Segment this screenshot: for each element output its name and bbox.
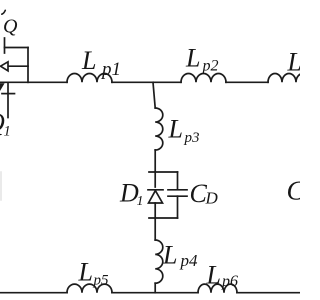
wire top rail left segment — [0, 81, 67, 83]
wire diode D1 bottom lead — [154, 203, 156, 218]
svg-text:p6: p6 — [221, 273, 238, 290]
svg-text:p5: p5 — [93, 273, 110, 289]
svg-text:p4: p4 — [180, 251, 199, 270]
label CQ (cut at top-left corner) — [2, 10, 6, 14]
svg-text:p1: p1 — [100, 59, 121, 80]
wire bottom rail right segment — [237, 292, 300, 294]
diode of Q1 (triangle, cut at left edge) — [1, 62, 9, 71]
inductor Lp1 — [67, 74, 112, 83]
inductor Lp3 — [155, 108, 163, 150]
wire bottom rail mid segment — [112, 292, 198, 294]
svg-text:p3: p3 — [184, 130, 200, 146]
wire diode branch vertical — [27, 48, 29, 83]
svg-text:L: L — [185, 44, 200, 73]
transistor Q1 source arrow (cut at left edge) — [0, 83, 5, 91]
svg-text:1: 1 — [4, 124, 11, 140]
wire bottom rail left segment — [0, 292, 67, 294]
inductor Lp6 — [198, 284, 237, 293]
inductor Lp2 — [181, 74, 226, 83]
wire parallel block top bar — [149, 171, 178, 173]
inductor L (cut at right edge) — [268, 74, 310, 83]
svg-text:D: D — [205, 189, 219, 208]
transistor Q1 gate lead — [7, 83, 9, 118]
wire block to Lp4 — [154, 218, 156, 240]
wire Lp3 to parallel block — [154, 150, 156, 172]
capacitor CD top plate — [168, 189, 187, 191]
svg-text:Q: Q — [3, 16, 18, 38]
inductor Lp4 — [155, 240, 163, 283]
wire CQ branch horizontal — [5, 47, 29, 49]
wire faint cut element at left edge — [0, 172, 2, 200]
wire top rail right segment — [226, 81, 268, 83]
svg-text:L: L — [162, 241, 177, 270]
capacitor CQ lead stub — [4, 38, 6, 53]
wire diode branch horizontal — [8, 65, 28, 67]
svg-text:L: L — [81, 46, 96, 75]
transistor Q1 gate tick — [2, 93, 15, 95]
capacitor CD top lead — [177, 172, 179, 189]
capacitor CD bottom lead — [177, 196, 179, 218]
svg-text:L: L — [78, 258, 93, 287]
svg-text:L: L — [287, 48, 301, 77]
svg-text:p2: p2 — [202, 58, 219, 75]
capacitor CD bottom plate — [168, 195, 187, 197]
diode D1 cathode bar — [148, 189, 163, 191]
wire diode D1 top lead — [154, 172, 156, 187]
svg-text:L: L — [168, 115, 183, 144]
svg-text:1: 1 — [137, 194, 144, 209]
wire top rail mid segment — [112, 81, 181, 83]
svg-text:L: L — [206, 261, 221, 290]
wire Lp4 to bottom rail — [154, 283, 156, 293]
diode D1 triangle — [149, 191, 163, 203]
svg-text:C: C — [287, 176, 301, 206]
node junction to middle branch — [153, 82, 155, 108]
inductor Lp5 — [67, 284, 112, 293]
wire parallel block bottom bar — [149, 217, 178, 219]
